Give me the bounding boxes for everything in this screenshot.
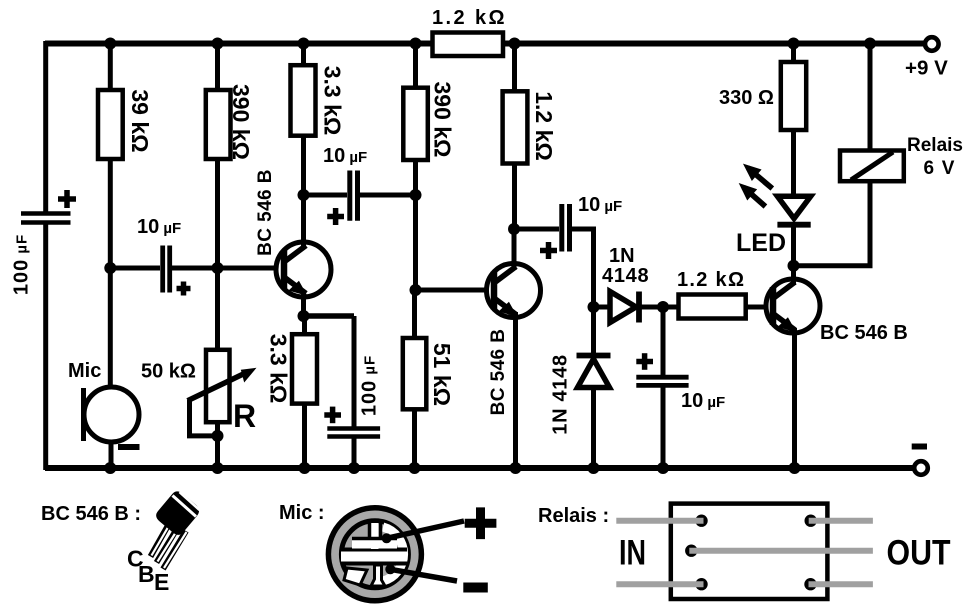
transistor Q1 BC546B [276,242,331,302]
legend relay pin 4 [695,578,707,590]
svg-text:6 V: 6 V [924,158,956,179]
label minus terminal [912,444,927,450]
svg-text:50 kΩ: 50 kΩ [141,361,196,383]
diode D1 1N4148 horizontal [610,292,639,323]
svg-text:1.2 kΩ: 1.2 kΩ [531,91,557,161]
legend mic pointer plus [387,521,464,538]
svg-text:330 Ω: 330 Ω [719,87,774,109]
capacitor C3 100uF plates [327,429,380,437]
LED light arrow 2 [734,177,766,206]
capacitor C2 polarity plus [177,282,191,296]
resistor R5 3.3k body [292,334,317,403]
node bottom rail / D2 [588,462,600,474]
svg-text:E: E [154,569,169,595]
node bottom rail / Q2 emitter [510,462,522,474]
svg-text:100 µF: 100 µF [11,234,33,295]
svg-text:B: B [138,561,155,587]
wire D1 cathode lead [639,305,663,310]
wire R11 top lead [791,44,796,63]
wire C3 bottom lead [352,439,357,469]
legend mic pointer minus [390,569,457,581]
wire R1 bottom lead to mic node [108,159,113,268]
svg-text:1N: 1N [609,245,635,267]
wire D2 cathode lead [591,307,596,356]
node top rail / relay [864,38,876,50]
wire R7 bottom lead [412,409,417,468]
wire Q1 collector [301,195,306,249]
svg-text:BC 546 B: BC 546 B [820,322,908,344]
legend mic plus sign [465,507,497,539]
resistor R8 1.2k horizontal body [433,33,504,57]
svg-text:Mic: Mic [68,360,101,382]
wire top rail +9V [45,41,924,47]
wire R10 left lead [663,305,679,310]
wire Q2 emitter [513,312,518,468]
potentiometer wiper arrow [188,363,260,400]
wire R9 top lead [512,44,517,92]
node D1 / C6 / R10 [657,301,669,313]
resistor R9 1.2k vertical body [503,91,528,163]
svg-text:BC 546 B: BC 546 B [255,169,276,256]
svg-text:10 µF: 10 µF [323,145,367,167]
wire Q3 collector [791,266,796,285]
wire mic top lead [108,268,113,388]
node bottom rail / Q3 emitter [789,462,801,474]
legend mic minus sign [463,583,488,593]
transistor Q2 BC546B [487,264,541,323]
microphone Mic symbol [84,387,140,442]
capacitor C6 polarity plus [636,353,653,370]
svg-text:10 µF: 10 µF [681,390,725,412]
legend relay box [671,504,828,599]
svg-text:1N 4148: 1N 4148 [550,354,572,435]
resistor R2 390k body [206,90,231,159]
svg-text:4148: 4148 [602,265,649,287]
wire LED cathode [791,225,796,266]
svg-text:100 µF: 100 µF [359,355,381,416]
svg-text:LED: LED [736,229,786,257]
wire R5 top lead [302,316,307,334]
wire R6 bottom lead [413,160,418,195]
svg-text:Relais: Relais [907,135,963,156]
microphone minus mark [118,444,140,450]
capacitor C6 10uF plates [636,377,688,385]
svg-text:+9 V: +9 V [905,57,948,80]
resistor R7 51k body [403,338,427,409]
wire R4 top lead [301,44,306,66]
wire relay bottom lead to collector node [794,181,871,266]
wire R6 top lead [413,44,418,88]
svg-text:IN: IN [619,534,646,573]
node bottom rail / pot [212,462,224,474]
legend relay wire top-right [809,518,873,524]
legend TO-92 package [151,489,202,569]
resistor R11 330 body [781,62,806,130]
legend relay pin 1 [695,515,707,527]
node top rail / R2 [212,38,224,50]
svg-text:390 kΩ: 390 kΩ [430,82,456,158]
node bottom rail / R7 [409,462,421,474]
node collector T1 [298,189,310,201]
wire R1 top lead [108,44,113,91]
resistor R4 3.3k body [291,65,316,136]
diode D2 1N4148 vertical [577,356,611,388]
LED light arrow 1 [738,158,772,189]
wire R5 bottom lead [302,404,307,468]
wire left rail upper segment [43,41,48,212]
svg-text:Mic :: Mic : [279,502,325,524]
svg-text:3.3 kΩ: 3.3 kΩ [320,66,346,136]
capacitor C4 polarity plus [327,208,344,225]
svg-text:BC 546 B :: BC 546 B : [41,503,141,525]
svg-text:51 kΩ: 51 kΩ [429,343,455,406]
transistor Q3 BC546B [766,279,820,338]
potentiometer R3 50k body [206,350,230,422]
terminal minus [914,461,928,475]
node base T1 [212,262,224,274]
svg-text:10 µF: 10 µF [137,216,181,238]
node top rail / R9 [509,38,521,50]
capacitor C5 10uF plates [562,204,570,252]
wire R6 node to base node T2 [413,195,418,290]
resistor R1 39k body [98,90,123,159]
wire Q2 collector [512,229,517,270]
wire C2 to T1 base [172,266,284,271]
capacitor C3 polarity plus [324,407,341,424]
capacitor C4 10uF plates [350,171,358,221]
wire C4 right lead [360,193,416,198]
legend relay pin 2 [805,515,817,527]
legend mic connector drawing [328,508,421,601]
capacitor C5 polarity plus [540,242,557,259]
wire R9 bottom lead [512,164,517,230]
legend relay wire bottom-left [616,581,703,587]
capacitor C1 100uF plates [21,214,71,223]
legend relay wire top-left [616,518,703,524]
node mic junction [104,262,116,274]
node emitter Q1 [298,310,310,322]
legend relay wire middle [689,548,873,554]
svg-text:390 kΩ: 390 kΩ [228,84,254,160]
wire R2 top lead [215,44,220,91]
wire C4 left lead [304,193,348,198]
legend relay pin 3 [685,545,697,557]
relay K1 coil [840,151,904,182]
wire R10 right lead [746,305,773,310]
node wiper junction [212,430,224,442]
capacitor C1 polarity plus [58,190,76,208]
capacitor C2 10uF plates [163,246,170,293]
wire Q3 emitter [792,328,797,468]
node collector T3 [788,260,800,272]
node top rail / R11 [788,38,800,50]
node bottom rail / C3 [348,462,360,474]
node bottom rail / R5 [299,462,311,474]
wire base T2 [416,288,495,293]
wire D2 anode lead [591,388,596,469]
legend relay wire bottom-right [809,581,873,587]
wire D1 anode lead [594,305,611,310]
wire C3 top lead [352,316,357,427]
wire bottom rail ground [45,465,914,471]
node C4 / R6 [410,189,422,201]
svg-text:R: R [233,398,256,434]
svg-text:39 kΩ: 39 kΩ [127,89,153,152]
node base T2 [410,284,422,296]
svg-text:10 µF: 10 µF [578,194,622,216]
wire C5 left lead [514,227,559,232]
node top rail / R6 [410,38,422,50]
node top rail / R1 [104,38,116,50]
wire R2 bottom lead to base node [215,159,220,268]
wire emitter bar Q1 [301,313,354,319]
wire R4 bottom lead to collector node [301,136,306,195]
terminal +9V [925,37,939,51]
wire C5 right lead and drop [572,229,594,307]
resistor R6 390k body [403,88,428,160]
svg-text:1.2 kΩ: 1.2 kΩ [432,7,507,29]
node diode junction D1 D2 [588,301,600,313]
wire pot bottom lead [215,422,220,468]
wire mic bottom lead [109,441,114,468]
resistor R10 1.2k body [679,295,746,319]
wire left rail lower segment [43,224,48,470]
node top rail / R4 [298,38,310,50]
svg-text:3.3 kΩ: 3.3 kΩ [265,334,291,404]
node collector T2 [508,223,520,235]
svg-text:BC 546 B: BC 546 B [488,329,509,416]
wire pot top lead [215,268,220,350]
wire R7 top lead [412,290,417,338]
wire C6 top lead [661,307,666,375]
svg-text:1.2 kΩ: 1.2 kΩ [677,269,745,291]
node bottom rail / C6 [657,462,669,474]
wire Q1 emitter [301,291,306,316]
wire C6 bottom lead [661,388,666,469]
LED D3 symbol [777,196,810,224]
svg-text:OUT: OUT [887,534,951,573]
node bottom rail / mic [104,462,116,474]
svg-text:Relais :: Relais : [538,505,609,527]
wire R11 bottom lead to LED [791,130,796,197]
wire mic node to C2 [110,266,160,271]
wire relay top lead [868,44,873,151]
legend relay pin 5 [804,578,816,590]
wire wiper return [190,400,215,436]
